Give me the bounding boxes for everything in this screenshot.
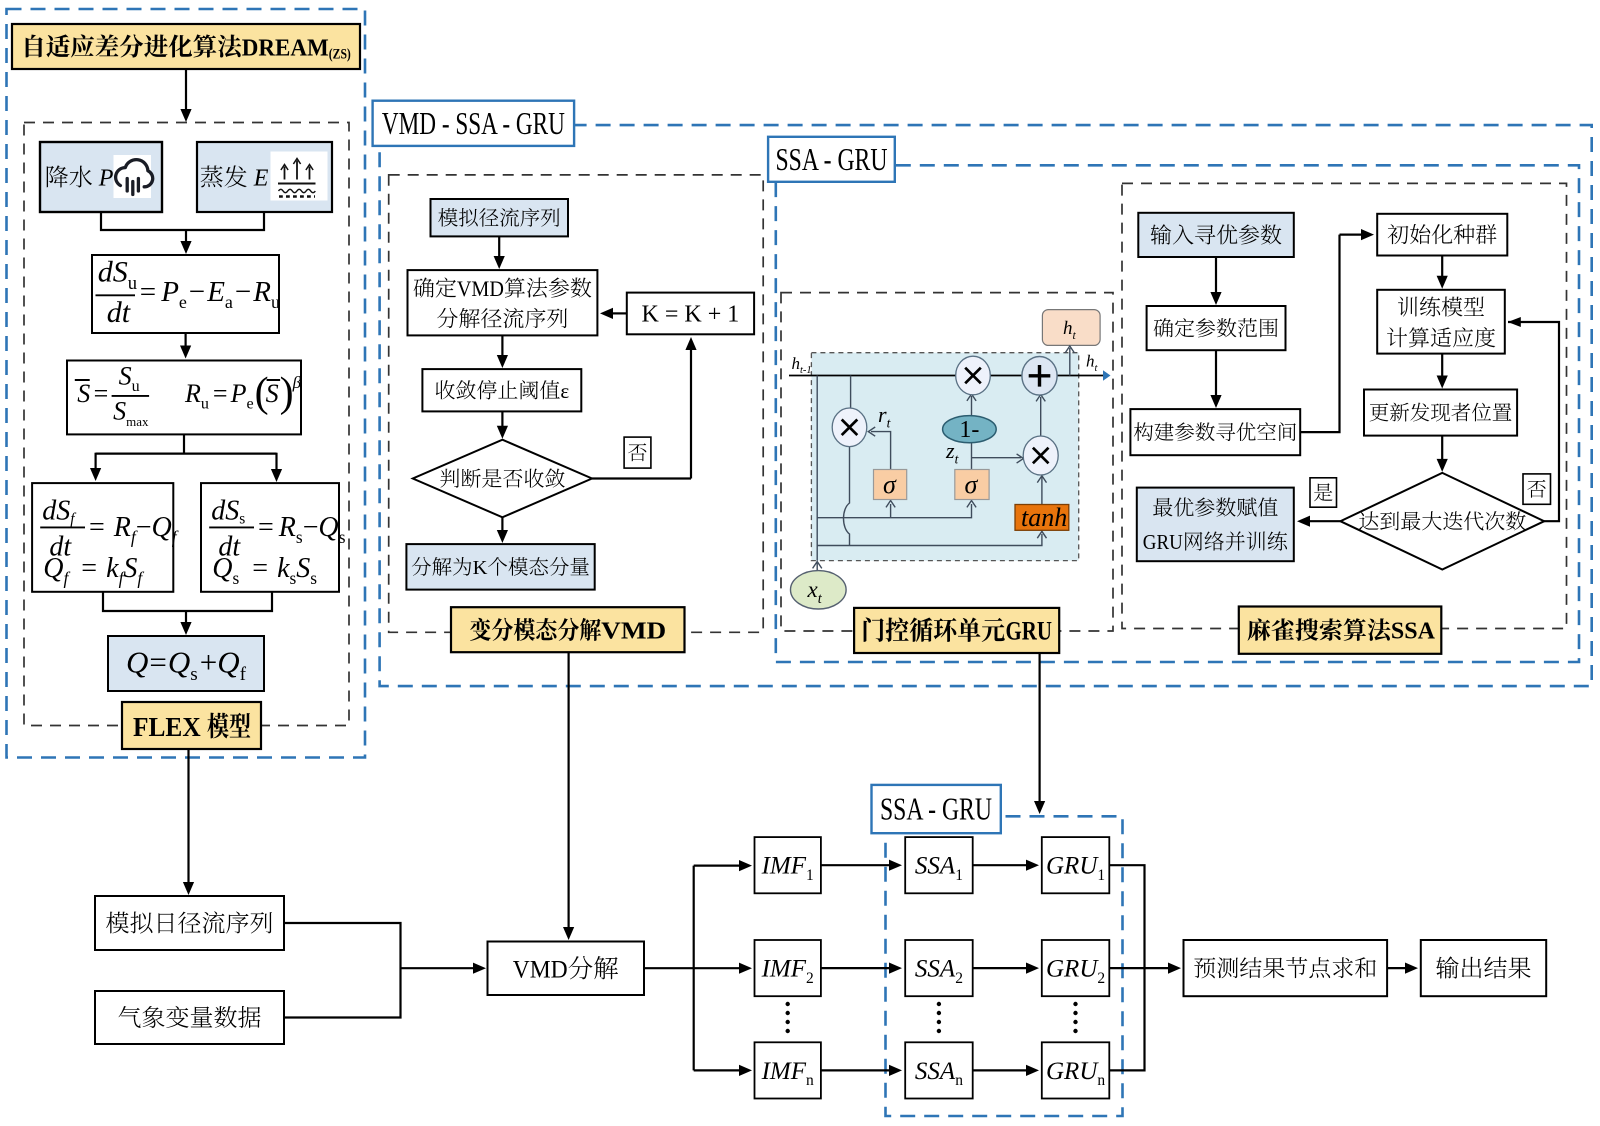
wire: h to reset product (850, 376, 852, 409)
svg-text:β: β (292, 373, 302, 392)
arrow: IMF2 to SSA2 (821, 967, 890, 969)
arrow: to determine VMD parameters (498, 236, 500, 257)
svg-text:VMD - SSA - GRU: VMD - SSA - GRU (382, 105, 565, 141)
wire: search space to initialize population (1300, 235, 1339, 433)
svg-text:GRU: GRU (1046, 1058, 1099, 1085)
svg-text:−: − (303, 512, 319, 543)
svg-text:Q: Q (318, 512, 338, 543)
svg-text:=: = (252, 553, 268, 584)
dots: IMF column (786, 1002, 790, 1006)
svg-text:GRU: GRU (1046, 853, 1099, 880)
op circle: plus (1022, 357, 1057, 396)
wire: product up to plus (1040, 397, 1042, 436)
svg-text:ε: ε (560, 379, 569, 403)
box: build parameter search space (1130, 409, 1300, 455)
box: equation Sbar and Ru (67, 361, 301, 435)
wire: r_t from sigma1 to reset product (871, 432, 891, 470)
svg-text:=: = (94, 379, 109, 408)
arrow: to update discoverer position (1441, 354, 1443, 377)
svg-text:GRU: GRU (1143, 530, 1183, 554)
black dashed frame: GRU block (781, 293, 1113, 631)
box: no (VMD loop) (624, 437, 651, 468)
box: update discoverer position (1364, 390, 1517, 436)
inner blue dashed frame: SSA-GRU panel (776, 165, 1579, 662)
arrow: to convergence threshold (501, 335, 503, 356)
svg-text:FLEX: FLEX (133, 711, 207, 742)
box: simulated runoff series (431, 199, 569, 236)
svg-text:k: k (277, 553, 290, 584)
arrow: SSA2 to GRU2 (973, 967, 1027, 969)
op circle: reset product (x) (832, 408, 867, 447)
box: train model / compute fitness (1377, 290, 1505, 354)
arrow: SSA1 to GRU1 (973, 864, 1027, 866)
arrow: yes-branch to assign best params (1309, 520, 1340, 522)
svg-text:u: u (128, 273, 137, 294)
arrow: FLEX model to simulated runoff (187, 749, 189, 883)
arrow: IMF1 to SSA1 (821, 864, 890, 866)
svg-text:SSA: SSA (915, 853, 956, 880)
svg-text:R: R (278, 512, 296, 543)
op circle: candidate product (x) (1023, 436, 1058, 475)
arrow: DREAM title to FLEX box (185, 69, 187, 110)
svg-text:tanh: tanh (1021, 503, 1067, 532)
box: SSA1 (905, 837, 973, 893)
svg-text:Q: Q (43, 553, 63, 584)
wire: candidate feed line 2 (817, 534, 1042, 546)
box: sigma gate 2 (955, 470, 989, 500)
svg-text:=: = (149, 645, 166, 680)
svg-text:n: n (806, 1072, 814, 1089)
svg-text:SSA: SSA (915, 956, 956, 983)
arrow: to IMF1 (694, 864, 740, 866)
box: Q = Qs + Qf (108, 636, 264, 691)
icon: rain cloud (116, 160, 153, 195)
svg-text:s: s (310, 568, 317, 588)
box: K = K + 1 (627, 293, 754, 335)
svg-text:Q: Q (217, 645, 239, 680)
svg-text:u: u (201, 396, 209, 413)
box: assign best params to GRU network and train (1137, 488, 1294, 562)
svg-text:GRU: GRU (1006, 617, 1053, 646)
box: determine VMD parameters / decompose runoff series (408, 270, 598, 335)
box: convergence stop threshold epsilon (422, 369, 581, 411)
svg-text:s: s (190, 664, 197, 685)
svg-text:(ZS): (ZS) (329, 47, 351, 63)
svg-text:2: 2 (1097, 970, 1105, 987)
arrow: to IMFn (694, 1069, 740, 1071)
label box: SSA - GRU (top) (768, 137, 895, 182)
svg-text:SSA - GRU: SSA - GRU (880, 791, 992, 827)
arrow: GRU label down to bottom SSA-GRU panel (1038, 652, 1040, 802)
box: equation dSu/dt = Pe - Ea - Ru (92, 255, 279, 333)
box: IMF1 (755, 837, 821, 893)
svg-text:VMD: VMD (601, 618, 666, 645)
svg-text:): ) (280, 370, 294, 416)
svg-text:K = K + 1: K = K + 1 (642, 301, 740, 327)
svg-text:dt: dt (107, 296, 131, 329)
svg-text:σ: σ (965, 470, 979, 499)
arrow: into dSu/dt equation (185, 230, 187, 242)
svg-text:=: = (258, 512, 274, 543)
svg-text:−: − (136, 512, 152, 543)
outer blue dashed frame: VMD-SSA-GRU panel (380, 125, 1592, 686)
ellipse: x_t input (791, 571, 847, 609)
svg-text:VMD: VMD (513, 954, 568, 983)
svg-text:s: s (233, 568, 240, 588)
svg-text:σ: σ (883, 470, 897, 499)
svg-text:S: S (113, 397, 126, 426)
arrow: to slow reservoir (275, 453, 277, 470)
wire: no-branch back to K=K+1 (592, 477, 691, 479)
svg-text:SSA - GRU: SSA - GRU (776, 141, 888, 177)
box: slow reservoir equations (201, 483, 339, 592)
arrow: SSAn to GRUn (973, 1069, 1027, 1071)
arrow: VMD label down to VMD decomposition box (567, 652, 569, 928)
svg-text:−: − (189, 276, 205, 308)
ellipse: 1- node (943, 416, 997, 443)
box: initialize population (1377, 214, 1507, 256)
wire: tanh up to product (1041, 477, 1043, 505)
box: IMFn (755, 1042, 821, 1098)
blue dashed frame: bottom SSA-GRU columns (886, 816, 1123, 1116)
arrow: to parameter search space (1215, 350, 1217, 396)
GRU cell background (811, 353, 1078, 561)
svg-text:IMF: IMF (761, 1058, 807, 1085)
label box: SSA - GRU (bottom) (872, 785, 1001, 833)
svg-text:s: s (239, 510, 245, 527)
box: input optimization parameters (1138, 213, 1294, 257)
svg-text:h: h (1086, 352, 1095, 371)
svg-text:P: P (160, 276, 179, 308)
wire: P and E merge (101, 212, 264, 230)
svg-text:e: e (179, 292, 187, 312)
svg-text:dS: dS (98, 256, 128, 289)
box: GRU2 (1042, 940, 1110, 996)
outer blue dashed frame: DREAM/FLEX panel (7, 9, 366, 758)
wire: VMD to IMF split (644, 866, 694, 969)
svg-text:u: u (271, 292, 280, 312)
svg-text:GRU: GRU (1046, 956, 1099, 983)
box: precipitation P (40, 142, 162, 212)
wire: vertical x_t feed (816, 376, 818, 561)
svg-text:S: S (123, 553, 137, 584)
svg-text:a: a (225, 292, 233, 312)
label box: gated recurrent unit GRU (854, 608, 1059, 653)
box: GRU1 (1042, 837, 1110, 893)
svg-text:max: max (126, 414, 149, 429)
black dashed frame: SSA block (1122, 183, 1567, 628)
arrow: to fast reservoir (94, 453, 96, 469)
wire: merge data sources (284, 923, 401, 1018)
svg-text:DREAM: DREAM (242, 34, 329, 61)
wire: up to h_t box (1069, 348, 1071, 376)
svg-text:E: E (248, 166, 269, 192)
svg-text:u: u (132, 378, 140, 395)
arrow: to max iterations decision (1441, 436, 1443, 460)
arrow: to parameter range (1215, 257, 1217, 293)
wire: split to fast/slow reservoirs (183, 434, 185, 453)
title box: adaptive differential evolution DREAM(ZS) (12, 24, 360, 69)
svg-text:=: = (213, 379, 228, 408)
box: SSAn (905, 1042, 973, 1098)
arrow: x_t into cell (816, 563, 818, 574)
arrow: IMFn to SSAn (821, 1069, 890, 1071)
wire: z_t to second product (972, 457, 1022, 459)
svg-text:x: x (807, 577, 819, 602)
diamond: reached max iterations (1340, 473, 1544, 570)
wire: merge reservoir outputs (103, 592, 272, 611)
box: simulated daily runoff series (95, 896, 284, 950)
black dashed frame: FLEX model (24, 123, 349, 726)
box: IMF2 (755, 940, 821, 996)
svg-text:S: S (296, 553, 310, 584)
box: sigma gate 1 (874, 470, 907, 500)
main hidden state line (789, 375, 1103, 377)
arrow: into VMD decomposition (401, 967, 475, 969)
box: output result (1421, 940, 1546, 996)
box: meteorological variable data (95, 991, 284, 1044)
wire: sigma2 up to 1- (971, 443, 973, 470)
svg-text:1: 1 (806, 867, 814, 884)
svg-text:k: k (106, 553, 119, 584)
svg-text:=: = (140, 276, 156, 308)
arrow: into Q sum box (185, 611, 187, 623)
svg-text:S: S (266, 379, 279, 408)
box: yes (1310, 478, 1337, 507)
box: VMD decomposition (488, 942, 645, 996)
arrow: into prediction sum (1145, 967, 1170, 969)
svg-text:h: h (1063, 318, 1073, 339)
arrow: to Sbar equation (185, 333, 187, 347)
svg-text:SSA: SSA (1391, 619, 1436, 645)
svg-text:VMD: VMD (457, 276, 504, 301)
svg-text:E: E (206, 276, 225, 308)
svg-text:P: P (93, 166, 114, 192)
svg-text:=: = (89, 512, 105, 543)
svg-text:R: R (113, 512, 131, 543)
wire: 1- up to update product (971, 396, 973, 417)
label box: VMD - SSA - GRU (373, 101, 574, 146)
svg-text:n: n (955, 1072, 963, 1089)
box: GRUn (1042, 1042, 1110, 1098)
arrow: to train model (1441, 256, 1443, 277)
svg-text:SSA: SSA (915, 1058, 956, 1085)
svg-text:2: 2 (806, 970, 814, 987)
svg-text:dS: dS (211, 496, 239, 527)
svg-text:dS: dS (42, 496, 70, 527)
op circle: update product (x) (956, 356, 991, 395)
diamond: is it converged (413, 440, 592, 518)
svg-text:IMF: IMF (761, 956, 807, 983)
svg-text:n: n (1097, 1072, 1105, 1089)
black dashed frame: VMD block (389, 175, 764, 632)
svg-text:S: S (77, 379, 90, 408)
svg-text:Q: Q (152, 512, 172, 543)
box: no (SSA loop) (1523, 474, 1551, 504)
svg-text:1-: 1- (959, 417, 979, 443)
svg-text:IMF: IMF (761, 853, 807, 880)
box: decompose into K modal components (406, 544, 594, 590)
arrow: to K modal components (501, 517, 503, 531)
svg-text:1: 1 (1097, 867, 1105, 884)
svg-text:P: P (230, 379, 247, 408)
label box: sparrow search algorithm SSA (1239, 607, 1442, 654)
svg-text:K: K (473, 557, 488, 579)
box: h_t output (rounded) (1042, 310, 1100, 346)
wire: GRU outputs merge (1109, 865, 1144, 1070)
svg-text:−: − (235, 276, 251, 308)
wire: reset product down with hop (844, 447, 850, 546)
label box: FLEX model (122, 702, 261, 749)
svg-text:Q: Q (126, 645, 148, 680)
arrow: K=K+1 to determine params (612, 312, 627, 314)
svg-text:=: = (81, 553, 97, 584)
arrow: to output (1387, 967, 1406, 969)
svg-text:R: R (184, 379, 201, 408)
svg-text:s: s (339, 527, 346, 547)
svg-text:f: f (240, 664, 247, 685)
svg-text:Q: Q (212, 553, 232, 584)
arrow: to IMF2 (694, 967, 740, 969)
svg-text:S: S (119, 362, 132, 391)
icon: evaporation arrows over water (278, 159, 316, 197)
box: determine parameter range (1147, 306, 1286, 350)
wire: gate feed line 1 (817, 504, 971, 518)
box: tanh (1015, 505, 1069, 531)
svg-text:2: 2 (955, 970, 963, 987)
box: evaporation E (197, 142, 332, 212)
svg-text:h: h (792, 354, 801, 373)
svg-text:Q: Q (168, 645, 190, 680)
svg-text:z: z (945, 438, 955, 463)
svg-text:1: 1 (955, 867, 963, 884)
box: sum of predicted results (1184, 940, 1388, 996)
svg-text:t-1: t-1 (800, 365, 812, 376)
svg-text:R: R (252, 276, 271, 308)
label box: variational mode decomposition VMD (451, 607, 685, 652)
arrow: to convergence decision (501, 411, 503, 426)
svg-text:e: e (247, 396, 254, 413)
box: SSA2 (905, 940, 973, 996)
svg-text:+: + (200, 645, 217, 680)
box: fast reservoir equations (32, 483, 173, 592)
wire: no-branch back to train model (1508, 322, 1559, 521)
